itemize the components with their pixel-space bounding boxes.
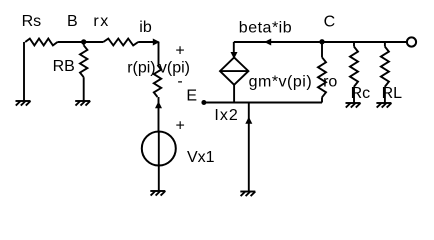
svg-text:B: B (67, 13, 78, 30)
svg-text:C: C (324, 13, 336, 30)
svg-text:Ix2: Ix2 (214, 107, 238, 124)
svg-text:ro: ro (323, 73, 337, 90)
svg-text:+: + (176, 118, 185, 135)
svg-text:Rs: Rs (22, 13, 42, 30)
svg-text:r(pi): r(pi) (127, 59, 155, 76)
svg-text:ib: ib (139, 19, 152, 36)
svg-text:Vx1: Vx1 (187, 149, 215, 166)
svg-text:beta*ib: beta*ib (239, 20, 292, 37)
svg-text:RL: RL (382, 85, 403, 102)
svg-text:-: - (177, 73, 182, 90)
svg-text:rx: rx (93, 13, 109, 30)
svg-text:E: E (186, 87, 197, 104)
svg-text:+: + (175, 43, 184, 60)
svg-text:Rc: Rc (351, 85, 371, 102)
svg-text:RB: RB (53, 58, 75, 75)
svg-text:gm*v(pi): gm*v(pi) (249, 74, 313, 91)
svg-text:v(pi): v(pi) (159, 59, 190, 76)
